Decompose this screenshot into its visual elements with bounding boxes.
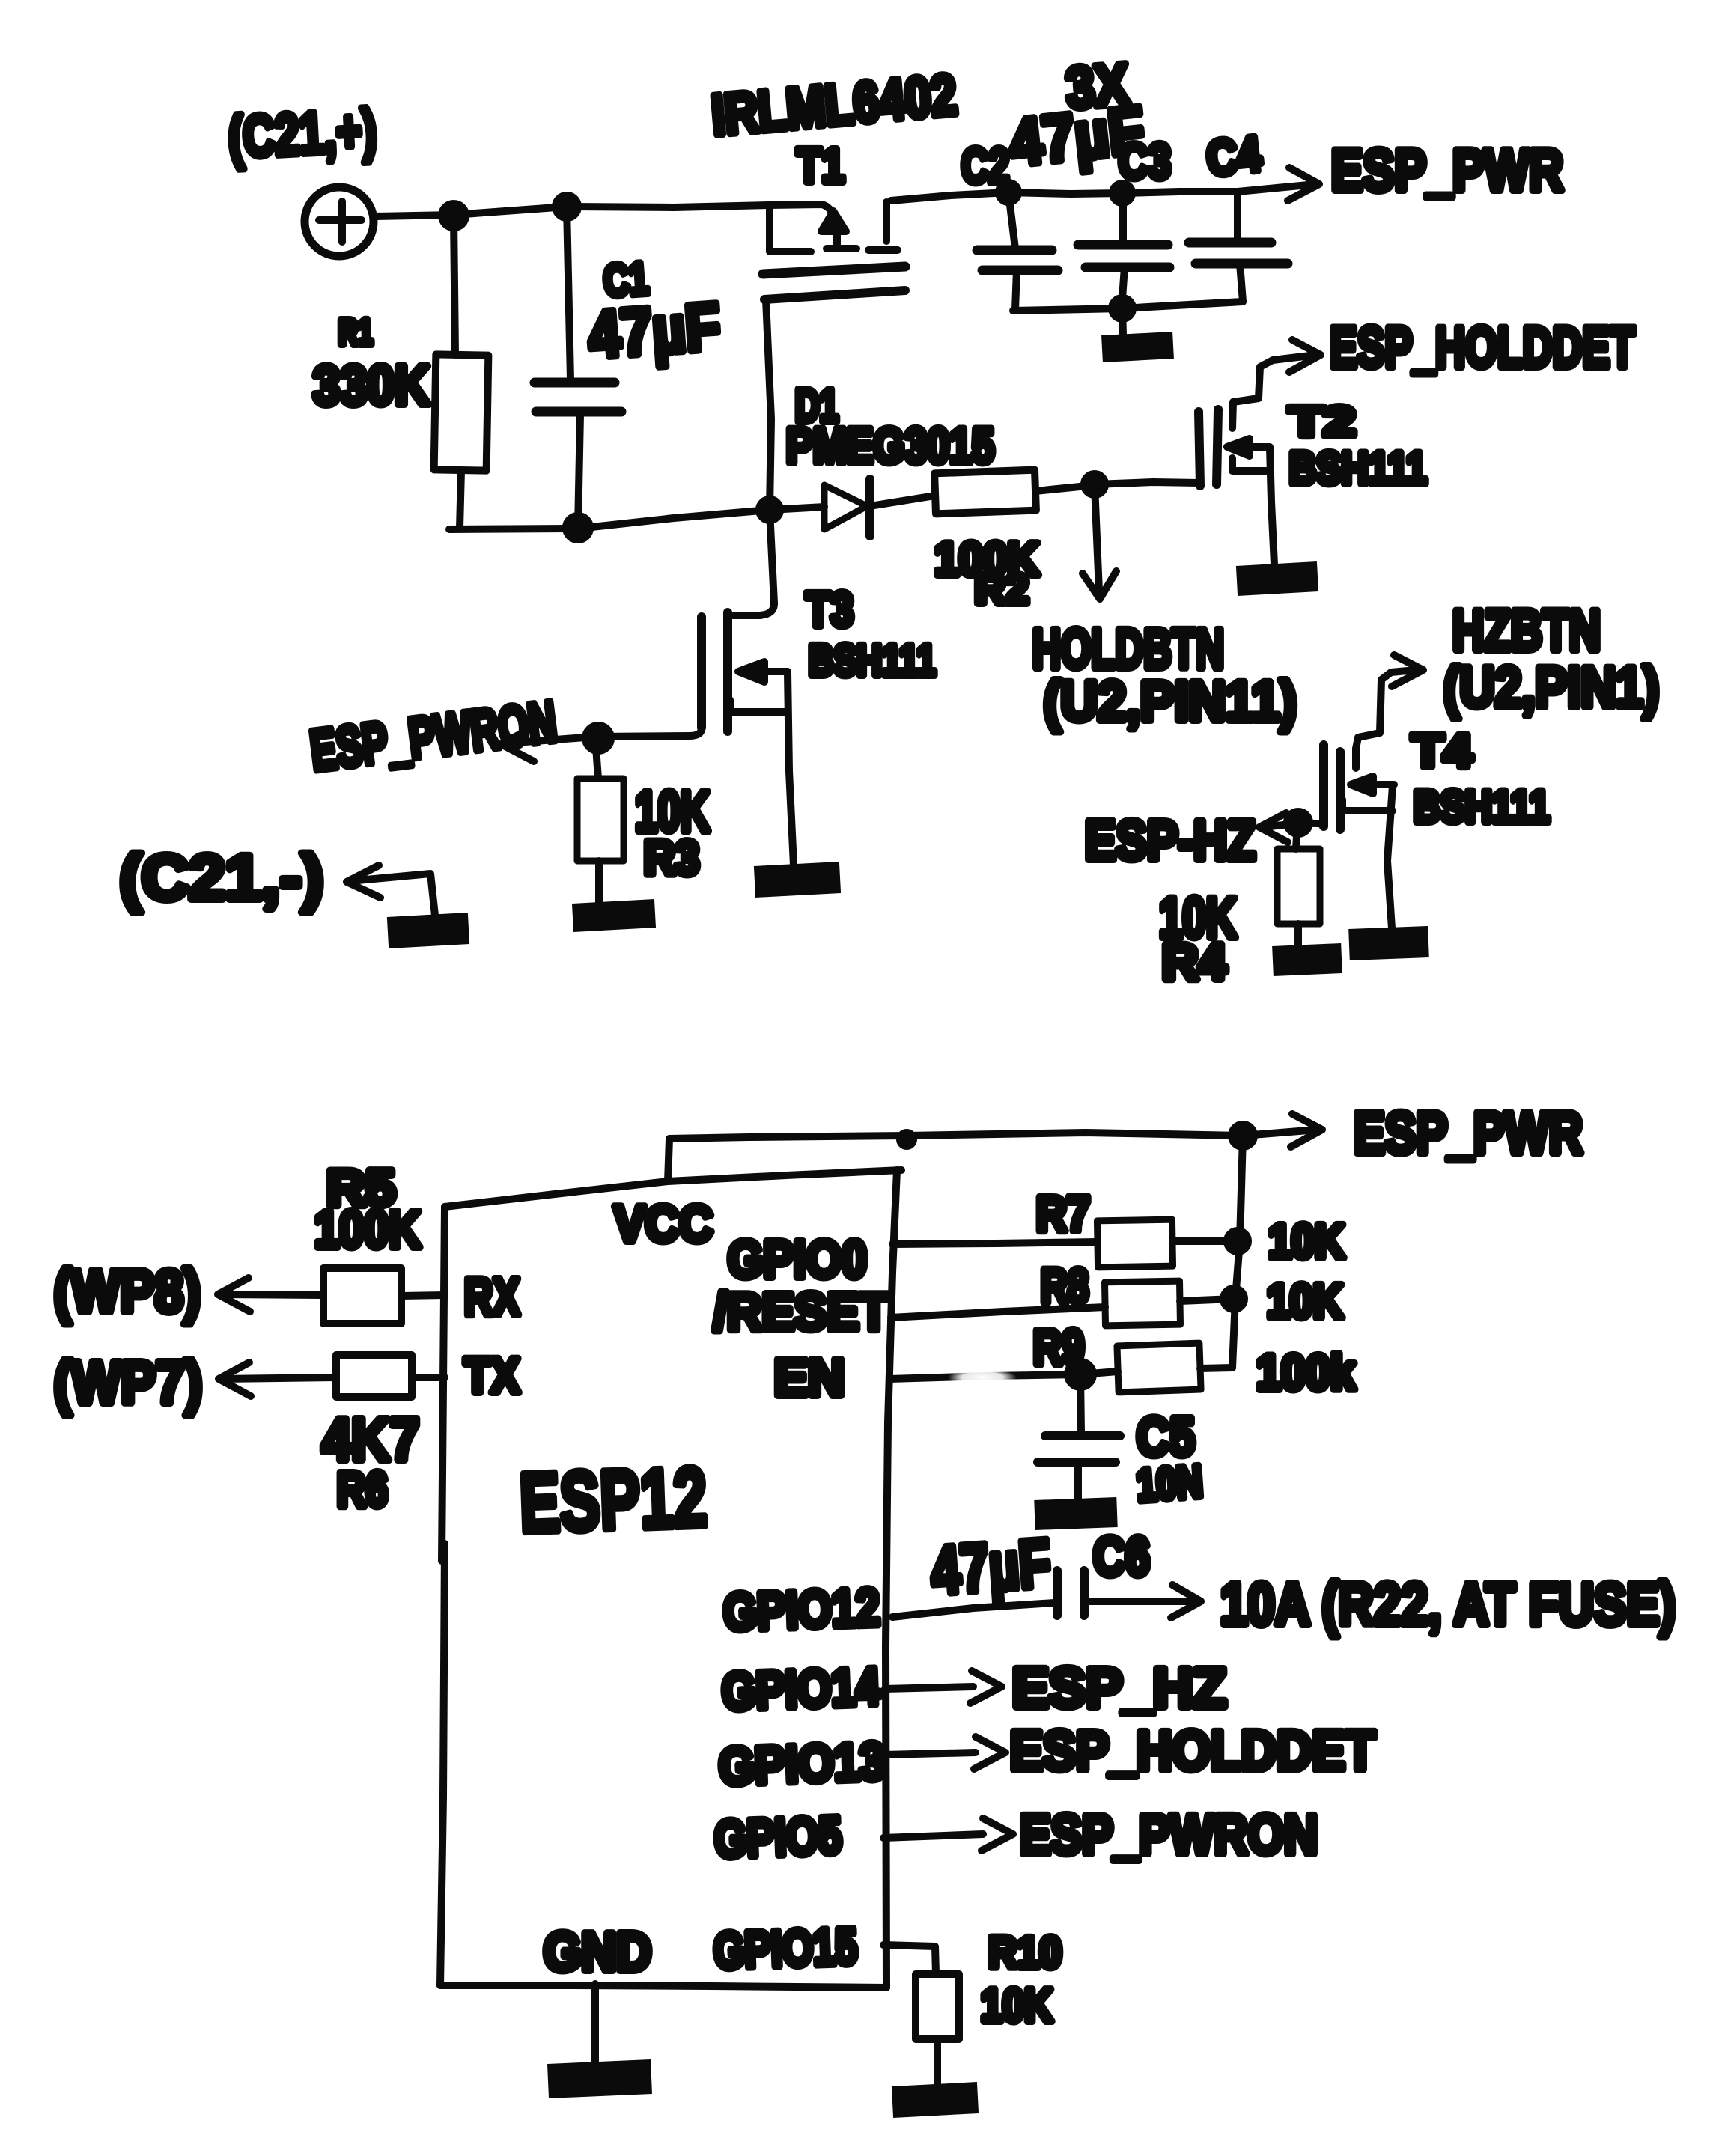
wire pull-up vertical rail — [1232, 1136, 1243, 1368]
svg-text:/RESET: /RESET — [713, 1282, 889, 1341]
capacitor C5 10n — [1035, 1374, 1204, 1515]
label 3x 47uF for C2 C3 C4 — [1006, 51, 1148, 180]
junction node T4 gate / R4 — [1287, 811, 1309, 834]
svg-text:10K: 10K — [1268, 1214, 1345, 1268]
svg-text:T2: T2 — [1289, 398, 1355, 445]
svg-text:C6: C6 — [1093, 1527, 1150, 1587]
svg-text:R10: R10 — [988, 1928, 1062, 1977]
junction node R7 right — [1227, 1231, 1248, 1252]
svg-text:R4: R4 — [1162, 934, 1226, 990]
svg-text:(C21,+): (C21,+) — [227, 97, 378, 170]
net ESP-HZ arrow — [1085, 809, 1297, 871]
svg-text:T4: T4 — [1412, 725, 1473, 777]
resistor R4 10K — [1159, 823, 1342, 990]
svg-text:47µF: 47µF — [586, 289, 722, 372]
capacitor C4 — [1189, 126, 1288, 302]
svg-text:GPIO5: GPIO5 — [713, 1806, 843, 1869]
wire top rail right of T1 to C4 — [891, 192, 1238, 201]
svg-text:(WP8): (WP8) — [54, 1258, 201, 1324]
svg-text:C2: C2 — [961, 138, 1009, 193]
svg-text:GND: GND — [544, 1922, 651, 1982]
net HZBTN (U2,PIN1) arrow — [1392, 599, 1659, 719]
net ESP_PWRON arrow from GPIO5 — [883, 1803, 1318, 1866]
capacitor C2 — [961, 138, 1058, 310]
junction node R9 left / C5 — [1068, 1362, 1093, 1387]
svg-text:GPIO14: GPIO14 — [721, 1657, 881, 1720]
svg-text:100K: 100K — [314, 1200, 421, 1258]
capacitor C3 — [1078, 133, 1171, 308]
junction node R2 right / HOLDBTN — [1084, 474, 1105, 495]
node (C21,-) with arrow and ground — [120, 842, 469, 933]
net ESP_PWR top arrow — [1238, 137, 1563, 203]
node HOLDBTN (U2,PIN11) down arrow — [1032, 485, 1297, 732]
diode D1 PMEG3015 — [770, 380, 994, 536]
wire bottom rail R1/C1 to D1 junction — [449, 510, 770, 529]
resistor R6 4K7 with (WP7) arrow — [54, 1349, 445, 1517]
resistor R7 10K — [892, 1186, 1345, 1268]
junction node R1 top — [442, 204, 466, 228]
capacitor C1 47uF — [535, 207, 722, 529]
wire VCC tab to ESP_PWR rail — [668, 1133, 1243, 1181]
svg-text:GPIO12: GPIO12 — [722, 1577, 881, 1641]
resistor R3 10K — [573, 737, 710, 918]
IC ESP12 module body — [440, 1170, 901, 1988]
svg-text:330K: 330K — [313, 354, 430, 416]
svg-text:(C21,-): (C21,-) — [120, 842, 323, 913]
svg-text:R1: R1 — [338, 313, 373, 353]
svg-text:VCC: VCC — [614, 1196, 713, 1252]
junction node C1 top — [556, 195, 578, 218]
svg-text:BSH111: BSH111 — [1414, 782, 1550, 832]
junction node C3 bottom — [1112, 298, 1133, 319]
wire R2 junction to T2 gate — [1095, 482, 1199, 484]
svg-text:10N: 10N — [1135, 1456, 1204, 1511]
transistor T2 BSH111 — [1199, 356, 1427, 581]
capacitor C6 47uF with 10A fuse note — [892, 1526, 1676, 1637]
wire bottom rail of C2 C3 C4 — [1013, 302, 1243, 311]
junction node C3 top — [1113, 183, 1132, 203]
net ESP_PWRON top arrow — [307, 689, 595, 783]
ground below C3 — [1102, 308, 1173, 349]
junction node C1 bottom — [566, 516, 590, 540]
junction node C2 top — [999, 183, 1018, 202]
junction node T3 gate / R3 — [585, 725, 611, 751]
wire top rail from (C21,+) to C4 — [374, 204, 833, 216]
svg-text:ESP_HOLDDET: ESP_HOLDDET — [1010, 1720, 1375, 1782]
svg-text:C4: C4 — [1204, 126, 1264, 186]
resistor R10 10K on GPIO15 — [883, 1928, 1062, 2102]
svg-text:(WP7): (WP7) — [54, 1349, 202, 1416]
svg-text:R2: R2 — [975, 565, 1029, 612]
white fade artifact on EN wire — [948, 1368, 1017, 1386]
svg-text:R6: R6 — [337, 1461, 388, 1517]
svg-text:BSH111: BSH111 — [1289, 443, 1427, 493]
svg-text:ESP_PWR: ESP_PWR — [1331, 137, 1563, 203]
wire blob on ESP_PWR rail — [900, 1133, 913, 1146]
svg-text:ESP-HZ: ESP-HZ — [1085, 809, 1256, 871]
svg-text:ESP_HZ: ESP_HZ — [1012, 1657, 1226, 1719]
node (C21,+) battery positive terminal — [227, 97, 378, 256]
transistor T4 BSH111 — [1297, 670, 1550, 945]
net ESP_HOLDDET arrow from GPIO13 — [885, 1720, 1375, 1782]
svg-text:T1: T1 — [797, 138, 845, 192]
svg-text:GPIO15: GPIO15 — [713, 1918, 859, 1980]
svg-text:ESP_PWR: ESP_PWR — [1354, 1100, 1583, 1166]
svg-text:47µF: 47µF — [928, 1526, 1053, 1609]
net ESP_HOLDDET arrow — [1289, 316, 1635, 380]
svg-text:RX: RX — [464, 1267, 520, 1326]
svg-text:BSH111: BSH111 — [809, 636, 936, 685]
svg-text:(U2,PIN11): (U2,PIN11) — [1044, 670, 1297, 732]
net ESP_PWR bottom arrow — [1243, 1100, 1583, 1166]
svg-text:R3: R3 — [644, 831, 699, 885]
svg-text:ESP_HOLDDET: ESP_HOLDDET — [1330, 316, 1635, 380]
svg-text:R8: R8 — [1041, 1259, 1089, 1313]
ground GND pin of ESP12 — [548, 1984, 651, 2081]
junction node D1 anode / T1 gate / T3 drain — [759, 499, 780, 520]
resistor R5 100K with (WP8) arrow — [54, 1160, 445, 1324]
svg-text:T3: T3 — [806, 582, 854, 636]
net ESP_HZ arrow from GPIO14 — [885, 1657, 1226, 1719]
svg-text:100k: 100k — [1256, 1345, 1355, 1400]
resistor R9 100k — [889, 1319, 1355, 1400]
svg-text:ESP_PWRON: ESP_PWRON — [1020, 1803, 1318, 1866]
svg-text:GPIO0: GPIO0 — [728, 1230, 867, 1288]
svg-text:GPIO13: GPIO13 — [718, 1732, 886, 1796]
svg-text:EN: EN — [774, 1348, 845, 1407]
resistor R1 330K — [313, 216, 488, 529]
resistor R8 10K — [891, 1259, 1343, 1328]
transistor T3 BSH111 — [595, 510, 936, 882]
svg-text:10K: 10K — [1267, 1274, 1343, 1328]
resistor R2 100K — [934, 470, 1095, 612]
svg-text:TX: TX — [464, 1347, 520, 1403]
svg-text:HZBTN: HZBTN — [1452, 599, 1601, 663]
transistor T1 IRLML6402 — [709, 63, 959, 510]
junction node ESP_PWR rail / pull-up rail — [1232, 1124, 1254, 1147]
svg-text:10A (R22, AT FUSE): 10A (R22, AT FUSE) — [1220, 1571, 1676, 1637]
svg-text:R7: R7 — [1036, 1186, 1090, 1241]
svg-text:ESP12: ESP12 — [518, 1450, 708, 1550]
svg-text:10K: 10K — [981, 1980, 1053, 2032]
svg-text:PMEG3015: PMEG3015 — [786, 418, 994, 473]
junction node R8 right — [1223, 1288, 1244, 1309]
svg-text:C3: C3 — [1119, 133, 1171, 189]
svg-text:(U2,PIN1): (U2,PIN1) — [1443, 656, 1659, 719]
